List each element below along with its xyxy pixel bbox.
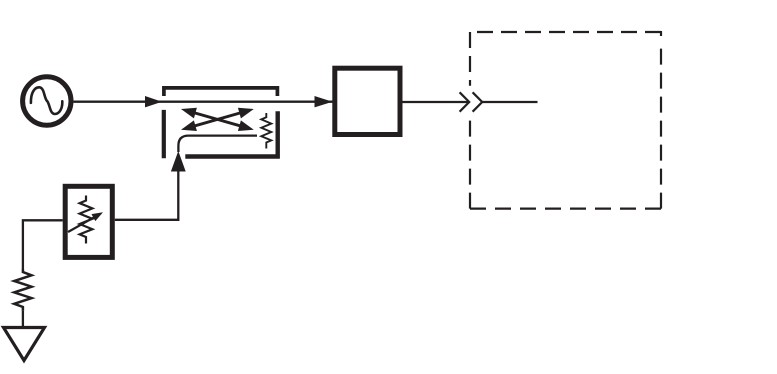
attenuator arrow <box>68 212 103 232</box>
wire into dashed enclosure <box>482 101 537 103</box>
arrowhead into coupler <box>145 96 162 107</box>
coupler U1 top bracket <box>164 88 278 96</box>
block U2 (square) <box>335 68 400 134</box>
wire attenuator right and up to coupler <box>115 171 179 220</box>
coupled port wire with bend <box>178 136 257 152</box>
coupler U1 bottom bracket bottom and right <box>185 111 277 156</box>
wire U2 to connector <box>403 101 469 103</box>
arrowhead up into coupled port <box>171 151 186 172</box>
connector J1 chevron 2 <box>473 92 483 111</box>
wire attenuator left and down <box>23 220 63 269</box>
resistor R2 <box>14 269 31 310</box>
dashed enclosure top-right corner stub <box>660 31 662 36</box>
wire to ground <box>22 311 24 328</box>
coupled-path arrow A (upper-left to lower-right) <box>181 108 254 131</box>
AC source V1 <box>23 77 71 125</box>
coupled-path arrow B (lower-left to upper-right) <box>181 108 254 131</box>
dashed enclosure top edge <box>477 31 661 33</box>
wire main through line <box>74 101 333 103</box>
connector J1 chevron 1 <box>460 92 470 111</box>
termination resistor R1 inside coupler <box>261 113 271 149</box>
coupler U1 bottom bracket left leg <box>162 110 166 158</box>
dashed enclosure right edge <box>660 42 662 209</box>
ground <box>4 328 45 361</box>
arrowhead into block U2 <box>315 96 333 107</box>
attenuator resistor zigzag <box>80 196 93 244</box>
dashed enclosure left edge upper <box>469 32 471 86</box>
variable attenuator AT1 box <box>65 186 112 257</box>
dashed enclosure left edge lower <box>469 119 471 209</box>
dashed enclosure bottom edge <box>470 208 661 210</box>
